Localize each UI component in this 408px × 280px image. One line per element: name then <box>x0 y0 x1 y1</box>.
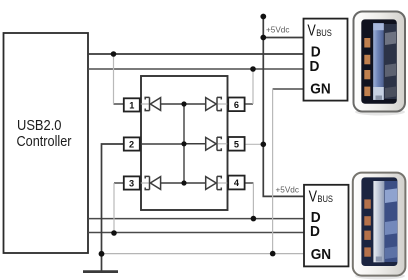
wire D+ top (controller to top connector D) <box>88 53 304 55</box>
svg-text:Controller: Controller <box>17 133 72 150</box>
wire D- bottom (controller to bottom connector D) <box>88 232 304 234</box>
svg-text:V: V <box>309 189 318 206</box>
svg-text:V: V <box>307 22 316 39</box>
junction dot: pin5 / +5V rail <box>261 142 267 148</box>
USB2.0 controller U1 <box>4 33 89 253</box>
wire D- top (controller to top connector D) <box>88 68 304 70</box>
junction dot: +5V / top VBUS tee <box>260 35 266 41</box>
svg-text:D: D <box>311 44 321 60</box>
junction dot: gnd / pin2 <box>99 251 105 257</box>
svg-text:GN: GN <box>310 81 330 97</box>
svg-text:4: 4 <box>234 178 240 188</box>
+5Vdc rail <box>263 17 304 197</box>
pin 5 <box>228 137 244 151</box>
junction dot: gnd / top GN <box>270 251 276 257</box>
net pin6 to D- top <box>245 103 253 105</box>
svg-text:3: 3 <box>129 179 134 189</box>
top USB-A receptacle photo <box>354 12 406 116</box>
junction dot: array row1 center <box>181 101 186 106</box>
junction dot: pin3 / D- bottom <box>111 230 117 236</box>
bottom USB-A receptacle photo <box>353 173 406 280</box>
svg-text:BUS: BUS <box>316 28 332 38</box>
svg-text:2: 2 <box>129 140 134 150</box>
ground symbol <box>83 270 118 273</box>
row2 wire pin2 to center <box>140 143 184 145</box>
svg-text:GN: GN <box>311 247 331 263</box>
top USB connector pin box J1 <box>304 19 348 101</box>
svg-text:BUS: BUS <box>317 194 333 204</box>
wire D+ bottom (controller to bottom connector D) <box>88 218 304 220</box>
pin 2 <box>124 137 140 150</box>
net pin3 to D- bottom <box>114 182 124 184</box>
center rail of array <box>183 104 185 183</box>
svg-text:6: 6 <box>234 100 239 110</box>
net pin4 to D+ bottom <box>245 182 254 184</box>
junction dot: pin6 / D- top <box>250 66 256 72</box>
net pin5 to +5V <box>245 143 264 145</box>
pin 6 <box>228 98 244 112</box>
pin 3 <box>124 176 140 189</box>
svg-text:1: 1 <box>129 100 134 110</box>
row3 left diode <box>140 176 184 189</box>
net pin1 to D+ top <box>114 103 124 105</box>
svg-text:+5Vdc: +5Vdc <box>266 26 289 35</box>
row2 right diode <box>184 137 228 150</box>
ground rail <box>102 253 305 255</box>
TVS diode array box D1 <box>141 76 228 210</box>
+5V tee to top VBUS <box>263 37 303 39</box>
top GND wire (connector GN to gnd net) <box>273 88 304 90</box>
junction dot: array row2 center <box>181 141 186 146</box>
svg-text:5: 5 <box>234 139 239 149</box>
svg-text:+5Vdc: +5Vdc <box>276 185 299 194</box>
svg-text:D: D <box>310 224 320 240</box>
junction dot: array row3 center <box>181 180 186 185</box>
junction dot: +5V top terminal <box>260 14 266 20</box>
pin 4 <box>228 176 244 190</box>
row1 left diode <box>140 97 184 110</box>
pin 1 <box>124 98 140 111</box>
row1 right diode <box>184 97 228 110</box>
row3 right diode <box>184 176 228 189</box>
junction dot: pin1 / D+ top <box>111 51 117 57</box>
net pin2 to ground <box>102 144 124 271</box>
svg-text:USB2.0: USB2.0 <box>17 117 62 134</box>
bottom USB connector pin box J2 <box>304 185 349 267</box>
junction dot: pin4 / D+ bottom <box>251 216 257 222</box>
svg-text:D: D <box>310 59 320 75</box>
